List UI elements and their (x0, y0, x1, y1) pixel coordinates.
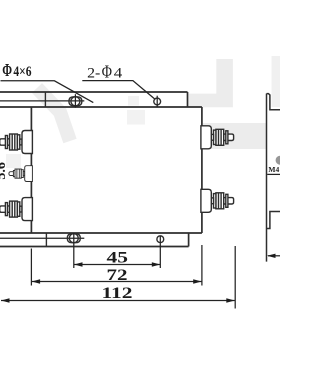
terminal left middle (small) (9, 166, 33, 182)
svg-text:Φ: Φ (2, 60, 12, 80)
svg-text:112: 112 (102, 285, 133, 302)
top mounting foot top edge (0, 91, 188, 93)
leader line for phi4x6 (1, 81, 94, 103)
leader line for 2-phi4 (82, 81, 154, 99)
filter body left edge (30, 107, 32, 233)
watermark bar right edge (272, 56, 281, 107)
extension line from body right (201, 245, 203, 286)
filter body right edge (201, 107, 203, 233)
svg-text:5.6: 5.6 (0, 162, 9, 180)
dimension line 45 (74, 264, 160, 266)
bottom mounting foot right edge (188, 233, 190, 247)
svg-text:4: 4 (114, 66, 123, 82)
bottom slot hole centerline (0, 237, 84, 239)
label 2-phi4 (87, 62, 123, 82)
svg-text:M4: M4 (268, 165, 279, 174)
arrow 45 right (152, 262, 161, 266)
dimension line 112 (1, 300, 235, 302)
filter body top edge (0, 106, 202, 108)
side width dimension arrow (267, 254, 276, 258)
bottom round hole (2-phi4) (157, 236, 164, 243)
watermark patch left of body (6, 154, 21, 168)
top round hole vertical centerline (156, 96, 158, 108)
bottom mounting foot bottom edge (0, 246, 189, 248)
watermark L-shape top right (189, 59, 233, 107)
bottom mounting foot bend line (45, 233, 47, 247)
terminal left bottom (0, 198, 32, 221)
side view flange top corner and body top edge (267, 94, 280, 110)
arrow 45 left (74, 262, 83, 266)
side width dimension line (268, 255, 280, 257)
top mounting foot right edge (187, 92, 189, 107)
M4 underline (267, 173, 280, 175)
watermark patch inside body (127, 110, 145, 125)
top round hole (2-phi4) (154, 98, 161, 105)
top slot hole centerline (0, 100, 84, 102)
top mounting foot bend line (44, 92, 46, 107)
watermark band right of body (203, 123, 266, 149)
filter body bottom edge (0, 232, 202, 234)
extension line from bottom hole 1 (73, 233, 75, 268)
svg-text:72: 72 (107, 267, 128, 284)
watermark swoosh top-left (37, 88, 70, 141)
terminal left top (0, 131, 32, 154)
svg-text:4×6: 4×6 (13, 64, 32, 80)
terminal right top (201, 126, 234, 149)
arrow 112 right (226, 298, 235, 302)
svg-text:45: 45 (107, 250, 129, 267)
svg-text:Φ: Φ (102, 62, 112, 82)
arrow 72 left (32, 279, 40, 283)
top slot hole vertical centerline (74, 94, 76, 108)
extension line from right pin tip (234, 246, 236, 309)
watermark patch on top strip (128, 96, 139, 106)
svg-text:2-: 2- (87, 66, 100, 82)
grounding screw head (gray) (276, 156, 285, 165)
side view body bottom edge and flange bottom jog (267, 212, 280, 229)
extension line from bottom hole 2 (159, 236, 161, 268)
top slot hole (phi4x6) (69, 97, 82, 106)
extension line from body left (30, 249, 32, 286)
label phi4x6 (2, 60, 32, 80)
dimension line 72 (32, 281, 202, 283)
side view flange outer edge (266, 94, 268, 262)
arrow 112 left (1, 298, 10, 302)
bottom slot hole (phi4x6) (67, 234, 80, 243)
terminal right bottom (201, 189, 234, 212)
arrow 72 right (193, 279, 202, 283)
